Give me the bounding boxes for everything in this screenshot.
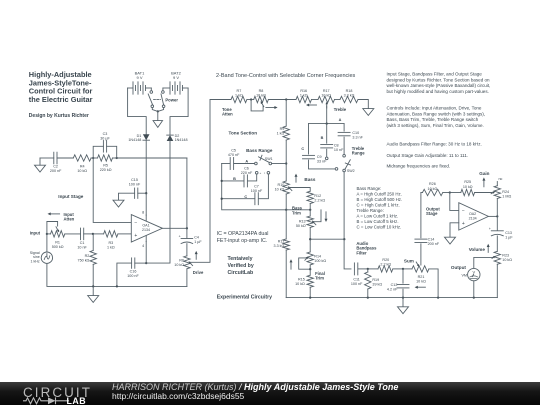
wire bbox=[170, 88, 188, 135]
svg-text:SW1: SW1 bbox=[265, 157, 273, 161]
label Output Stage bbox=[426, 206, 440, 216]
node bbox=[367, 268, 369, 270]
wire bbox=[496, 236, 498, 251]
svg-text:C4: C4 bbox=[194, 236, 199, 240]
svg-text:470 nF: 470 nF bbox=[228, 153, 240, 157]
text IC note bbox=[217, 231, 269, 244]
label Bass Trim bbox=[292, 206, 328, 222]
svg-text:Gain: Gain bbox=[479, 171, 489, 176]
svg-text:FET-input op-amp IC.: FET-input op-amp IC. bbox=[217, 238, 268, 244]
svg-text:i: i bbox=[265, 171, 266, 175]
svg-text:C14: C14 bbox=[428, 238, 435, 242]
svg-text:Volume: Volume bbox=[469, 247, 486, 252]
potentiometer R17 bbox=[306, 89, 335, 124]
wire bbox=[128, 88, 147, 134]
potentiometer R13 bbox=[296, 216, 316, 228]
title block bbox=[29, 70, 93, 104]
wire bbox=[247, 98, 254, 100]
capacitor C12 bbox=[387, 269, 409, 298]
svg-text:3.3 kΩ: 3.3 kΩ bbox=[274, 244, 285, 248]
text line bbox=[387, 153, 469, 158]
svg-text:1 kΩ: 1 kΩ bbox=[235, 94, 243, 98]
ground bbox=[398, 298, 409, 314]
svg-text:R5: R5 bbox=[103, 164, 108, 168]
label Bass bbox=[295, 174, 316, 183]
text line bbox=[387, 163, 451, 168]
wire bbox=[450, 223, 459, 237]
wire minus input bbox=[93, 158, 131, 222]
svg-text:A = High Cutoff 250 Hz.: A = High Cutoff 250 Hz. bbox=[357, 192, 402, 197]
svg-text:1N4148: 1N4148 bbox=[128, 138, 141, 142]
capacitor C1 bbox=[65, 228, 93, 249]
svg-text:10 kΩ: 10 kΩ bbox=[416, 280, 426, 284]
wire ground bus bbox=[47, 263, 187, 287]
svg-text:10 nF: 10 nF bbox=[77, 245, 87, 249]
label A bbox=[339, 118, 342, 122]
svg-text:B = High Cutoff 500 Hz.: B = High Cutoff 500 Hz. bbox=[357, 197, 403, 202]
svg-text:4: 4 bbox=[142, 244, 144, 248]
svg-text:Attenuation, Bass Range switch: Attenuation, Bass Range switch (with 3 s… bbox=[387, 111, 486, 116]
wire drive wiper bbox=[190, 100, 231, 263]
svg-text:Controls Include: Input Attenu: Controls Include: Input Attenuation, Dri… bbox=[387, 106, 482, 111]
resistor R18 bbox=[335, 89, 359, 103]
svg-text:C12: C12 bbox=[391, 283, 398, 287]
label Gain bbox=[479, 171, 489, 187]
svg-text:10 kΩ: 10 kΩ bbox=[428, 187, 438, 191]
capacitor C6 bbox=[222, 167, 257, 187]
label C bbox=[301, 147, 304, 151]
svg-text:R2: R2 bbox=[85, 254, 90, 258]
text line bbox=[387, 141, 482, 146]
svg-text:Treble Range:: Treble Range: bbox=[357, 208, 384, 213]
svg-text:the Electric Guitar: the Electric Guitar bbox=[29, 95, 93, 104]
svg-text:but highly modified and having: but highly modified and having custom pa… bbox=[387, 89, 489, 94]
svg-text:nc: nc bbox=[499, 177, 503, 181]
resistor R19 bbox=[365, 269, 383, 298]
svg-text:Output Stage Gain Adjustable:: Output Stage Gain Adjustable: 11 to 111. bbox=[387, 153, 469, 158]
svg-text:Drive: Drive bbox=[193, 270, 204, 275]
wire V- rail bbox=[147, 141, 170, 263]
voltmeter VM bbox=[461, 268, 480, 280]
capacitor C9 bbox=[303, 124, 338, 171]
svg-text:30 µF: 30 µF bbox=[100, 137, 110, 141]
resistor R2 bbox=[78, 234, 97, 287]
label Input Atten bbox=[48, 212, 75, 222]
svg-text:C11: C11 bbox=[353, 277, 360, 281]
svg-text:10 kΩ: 10 kΩ bbox=[174, 263, 184, 267]
svg-text:500 kΩ: 500 kΩ bbox=[52, 245, 64, 249]
label Tone Section bbox=[229, 130, 258, 135]
svg-text:10 kΩ: 10 kΩ bbox=[295, 282, 305, 286]
svg-text:R11: R11 bbox=[278, 240, 285, 244]
svg-text:−: − bbox=[134, 220, 137, 226]
svg-text:R7: R7 bbox=[237, 89, 242, 93]
svg-text:Range: Range bbox=[352, 151, 365, 156]
svg-text:C15: C15 bbox=[131, 178, 138, 182]
svg-text:100 nF: 100 nF bbox=[351, 282, 363, 286]
svg-text:100 nF: 100 nF bbox=[129, 183, 141, 187]
svg-text:C5: C5 bbox=[231, 149, 236, 153]
wire bass bus bbox=[221, 164, 312, 211]
wire R13 wiper bbox=[313, 210, 321, 222]
wire bass wiper bbox=[290, 188, 311, 192]
svg-text:Design by Kurtus Richter: Design by Kurtus Richter bbox=[29, 113, 89, 119]
svg-text:R20: R20 bbox=[382, 258, 389, 262]
resistor R7 bbox=[231, 89, 247, 103]
wire bbox=[310, 238, 345, 240]
svg-text:R23: R23 bbox=[502, 254, 509, 258]
CircuitLab logo bbox=[22, 383, 102, 405]
wire bbox=[475, 192, 492, 194]
svg-text:Midrange frequencies are fixed: Midrange frequencies are fixed. bbox=[387, 163, 451, 168]
svg-text:Sum: Sum bbox=[404, 258, 414, 263]
svg-text:1N4148: 1N4148 bbox=[175, 138, 188, 142]
wire treble top bbox=[309, 122, 345, 124]
svg-text:10 kΩ: 10 kΩ bbox=[77, 169, 87, 173]
svg-text:R8: R8 bbox=[259, 89, 264, 93]
resistor R16 bbox=[296, 89, 312, 103]
svg-text:Audio Bandpass Filter Range: 3: Audio Bandpass Filter Range: 30 Hz to 18… bbox=[387, 141, 482, 146]
wire bbox=[268, 98, 296, 100]
ground bbox=[113, 200, 124, 207]
svg-text:A: A bbox=[245, 159, 248, 163]
ground bbox=[88, 286, 99, 302]
svg-text:+: + bbox=[134, 233, 137, 239]
svg-text:SW2: SW2 bbox=[347, 169, 355, 173]
battery BAT2 bbox=[163, 71, 188, 95]
svg-text:OA1: OA1 bbox=[142, 224, 149, 228]
wire ground bus right bbox=[286, 296, 497, 298]
svg-text:100 kΩ: 100 kΩ bbox=[314, 259, 326, 263]
label Sum bbox=[404, 258, 414, 263]
resistor R5 bbox=[91, 155, 117, 172]
potentiometer R14 bbox=[305, 252, 326, 265]
svg-text:10 kΩ: 10 kΩ bbox=[256, 94, 266, 98]
ground bbox=[445, 237, 456, 244]
resistor R3 bbox=[93, 231, 118, 250]
svg-text:A = Low Cutoff 1 kHz.: A = Low Cutoff 1 kHz. bbox=[357, 214, 399, 219]
svg-text:1 kΩ: 1 kΩ bbox=[277, 131, 285, 135]
battery BAT1 bbox=[128, 71, 152, 95]
svg-text:R9: R9 bbox=[280, 127, 285, 131]
wire OA2 output bbox=[488, 215, 498, 217]
capacitor C13 bbox=[489, 227, 514, 240]
switch SW power bbox=[148, 88, 178, 108]
svg-text:C16: C16 bbox=[130, 270, 137, 274]
svg-text:Tone Section: Tone Section bbox=[229, 130, 258, 135]
svg-text:Input: Input bbox=[30, 231, 41, 236]
diode D2 bbox=[167, 134, 188, 142]
svg-text:Filter: Filter bbox=[356, 250, 367, 255]
label Input bbox=[30, 231, 41, 236]
wire bbox=[358, 100, 368, 109]
resistor R12 bbox=[307, 191, 325, 216]
svg-text:3.3 nF: 3.3 nF bbox=[352, 136, 363, 140]
capacitor C10 bbox=[338, 124, 364, 157]
svg-text:CircuitLab: CircuitLab bbox=[228, 270, 254, 276]
svg-text:C10: C10 bbox=[352, 131, 359, 135]
section title bbox=[216, 73, 356, 79]
svg-text:OA2: OA2 bbox=[469, 212, 476, 216]
svg-text:Atten: Atten bbox=[64, 217, 75, 222]
svg-text:+: + bbox=[462, 221, 465, 227]
svg-text:C = High Cutoff 1 kHz.: C = High Cutoff 1 kHz. bbox=[357, 203, 400, 208]
svg-text:R4: R4 bbox=[80, 165, 85, 169]
svg-text:R25: R25 bbox=[464, 180, 471, 184]
svg-text:C7: C7 bbox=[254, 184, 259, 188]
svg-text:R17: R17 bbox=[323, 89, 330, 93]
svg-text:C1: C1 bbox=[80, 241, 85, 245]
wire pin4 bbox=[145, 242, 147, 265]
wire SW2 common bbox=[344, 172, 351, 269]
op-amp OA2 bbox=[459, 203, 489, 230]
svg-text:2134: 2134 bbox=[142, 228, 150, 232]
source SIG1 bbox=[30, 251, 53, 264]
wire bbox=[496, 199, 498, 231]
svg-text:10 kΩ: 10 kΩ bbox=[502, 258, 512, 262]
resistor R15 bbox=[295, 265, 313, 298]
switch SW2 bbox=[343, 160, 355, 173]
svg-text:R26: R26 bbox=[429, 182, 436, 186]
svg-text:R13: R13 bbox=[299, 220, 306, 224]
svg-text:Atten: Atten bbox=[222, 112, 233, 117]
capacitor C5 bbox=[222, 149, 255, 170]
wire bbox=[496, 264, 498, 297]
wire feedback bbox=[186, 158, 188, 228]
potentiometer R24 bbox=[491, 177, 511, 199]
svg-text:2.2 kΩ: 2.2 kΩ bbox=[314, 198, 325, 202]
svg-text:8: 8 bbox=[142, 210, 144, 214]
svg-text:200 nF: 200 nF bbox=[428, 242, 440, 246]
label B bbox=[233, 177, 236, 181]
switch SW1 bbox=[255, 155, 273, 175]
wire bbox=[272, 163, 287, 165]
resistor R9 bbox=[277, 100, 290, 182]
svg-text:39 kΩ: 39 kΩ bbox=[372, 282, 382, 286]
svg-text:designed by Kurtus Richter. To: designed by Kurtus Richter. Tone Section… bbox=[387, 77, 491, 82]
resistor R11 bbox=[274, 210, 290, 298]
svg-text:1 µF: 1 µF bbox=[505, 235, 513, 239]
svg-text:100 nF: 100 nF bbox=[251, 189, 263, 193]
svg-text:V: V bbox=[472, 269, 475, 274]
text experimental bbox=[217, 295, 272, 301]
svg-text:R16: R16 bbox=[300, 89, 307, 93]
svg-text:IC = OPA2134PA dual: IC = OPA2134PA dual bbox=[217, 231, 269, 237]
potentiometer R23 bbox=[492, 251, 512, 264]
svg-text:Trim: Trim bbox=[292, 211, 301, 216]
svg-text:Input Stage: Input Stage bbox=[58, 194, 83, 199]
svg-text:R18: R18 bbox=[346, 89, 353, 93]
label Drive bbox=[193, 251, 204, 275]
svg-text:R6: R6 bbox=[179, 259, 184, 263]
svg-text:Bass Range: Bass Range bbox=[246, 148, 273, 153]
capacitor C16 bbox=[117, 258, 147, 287]
svg-text:10 kΩ: 10 kΩ bbox=[463, 185, 473, 189]
label Input Stage bbox=[58, 194, 83, 199]
label Final Trim bbox=[315, 271, 325, 281]
label Audio Bandpass Filter bbox=[356, 241, 377, 255]
svg-text:C6: C6 bbox=[244, 167, 249, 171]
capacitor C3 bbox=[93, 132, 117, 158]
capacitor C14 bbox=[415, 193, 440, 247]
svg-text:220 kΩ: 220 kΩ bbox=[100, 168, 112, 172]
svg-text:C: C bbox=[244, 195, 247, 199]
svg-text:9 V: 9 V bbox=[173, 75, 179, 80]
svg-text:+: + bbox=[260, 171, 262, 175]
resistor R20 bbox=[368, 258, 403, 272]
capacitor C2 bbox=[40, 152, 73, 173]
svg-text:10 kΩ: 10 kΩ bbox=[321, 94, 331, 98]
svg-text:Tentaively: Tentaively bbox=[228, 256, 253, 262]
svg-text:2.2 kΩ: 2.2 kΩ bbox=[380, 262, 391, 266]
svg-text:R12: R12 bbox=[314, 194, 321, 198]
ground bbox=[35, 158, 46, 172]
svg-text:33 nF: 33 nF bbox=[317, 160, 327, 164]
svg-text:VM: VM bbox=[461, 274, 467, 278]
wire bbox=[152, 108, 163, 121]
label Output bbox=[451, 265, 467, 270]
svg-text:1 kΩ: 1 kΩ bbox=[107, 245, 115, 249]
svg-text:1 kΩ: 1 kΩ bbox=[300, 94, 308, 98]
capacitor C4 bbox=[179, 228, 203, 256]
ground bbox=[153, 121, 163, 128]
node bbox=[449, 191, 451, 193]
svg-text:C8: C8 bbox=[334, 144, 339, 148]
svg-text:Output: Output bbox=[451, 265, 467, 270]
capacitor C7 bbox=[222, 174, 269, 205]
text paragraph 1 bbox=[387, 72, 491, 94]
potentiometer R10 bbox=[275, 181, 292, 210]
wire bbox=[46, 233, 48, 252]
svg-text:C = Low Cutoff 10 kHz.: C = Low Cutoff 10 kHz. bbox=[357, 225, 402, 230]
node bbox=[92, 233, 94, 235]
svg-text:Input Stage, Bandpass Filter,: Input Stage, Bandpass Filter, and Output… bbox=[387, 72, 483, 77]
label Tone Atten bbox=[222, 107, 233, 117]
wire OA1 output bbox=[162, 227, 188, 229]
op-amp OA1 bbox=[131, 210, 162, 248]
svg-text:220 nF: 220 nF bbox=[241, 171, 253, 175]
svg-text:Bass Range:: Bass Range: bbox=[357, 186, 382, 191]
svg-text:1 kHz: 1 kHz bbox=[31, 260, 40, 264]
svg-text:9 V: 9 V bbox=[136, 75, 142, 80]
svg-text:(with 3 settings), Sum, Final: (with 3 settings), Sum, Final Trim, Gain… bbox=[387, 123, 484, 128]
svg-text:50 kΩ: 50 kΩ bbox=[296, 224, 306, 228]
svg-text:Treble: Treble bbox=[334, 107, 347, 112]
svg-text:R1: R1 bbox=[55, 240, 60, 244]
svg-text:R24: R24 bbox=[502, 190, 509, 194]
svg-text:3.3 kΩ: 3.3 kΩ bbox=[344, 94, 355, 98]
svg-text:+: + bbox=[179, 235, 181, 239]
capacitor C8 bbox=[321, 124, 344, 160]
svg-text:C2: C2 bbox=[53, 165, 58, 169]
text range list bbox=[357, 186, 403, 230]
wire R14 wiper bbox=[290, 258, 312, 270]
svg-text:Power: Power bbox=[165, 97, 178, 102]
svg-text:Trim: Trim bbox=[315, 276, 324, 281]
svg-text:R15: R15 bbox=[298, 277, 305, 281]
resistor R25 bbox=[450, 180, 475, 196]
svg-text:R21: R21 bbox=[418, 275, 425, 279]
svg-text:Stage: Stage bbox=[426, 211, 438, 216]
resistor R26 bbox=[423, 182, 450, 196]
svg-text:10 kΩ: 10 kΩ bbox=[275, 187, 285, 191]
svg-text:B: B bbox=[321, 136, 324, 140]
resistor R4 bbox=[73, 155, 91, 173]
potentiometer R8 bbox=[251, 89, 278, 111]
svg-text:Signal: Signal bbox=[30, 251, 40, 255]
label Treble Range bbox=[352, 146, 365, 156]
wire bbox=[312, 99, 319, 101]
svg-text:R19: R19 bbox=[372, 278, 379, 282]
ground bbox=[363, 109, 374, 116]
svg-text:sine: sine bbox=[33, 255, 40, 259]
label Treble bbox=[334, 107, 347, 112]
svg-text:R14: R14 bbox=[314, 254, 321, 258]
svg-text:R10: R10 bbox=[278, 183, 285, 187]
svg-text:C3: C3 bbox=[103, 132, 108, 136]
potentiometer R1 bbox=[47, 222, 65, 249]
wire bbox=[117, 157, 187, 159]
wire bbox=[473, 281, 475, 298]
label Bass Range bbox=[246, 148, 273, 153]
svg-text:1 MΩ: 1 MΩ bbox=[502, 195, 511, 199]
wire bbox=[309, 228, 311, 252]
svg-text:Verified by: Verified by bbox=[228, 263, 254, 269]
svg-text:−: − bbox=[462, 208, 465, 214]
label Volume bbox=[469, 244, 490, 253]
diode D1 bbox=[128, 134, 149, 142]
svg-text:750 kΩ: 750 kΩ bbox=[78, 258, 90, 262]
node bbox=[402, 268, 404, 270]
node bbox=[92, 157, 94, 159]
svg-text:A: A bbox=[339, 118, 342, 122]
node bbox=[116, 157, 118, 159]
label C bbox=[244, 195, 247, 199]
svg-text:C9: C9 bbox=[317, 155, 322, 159]
wire bbox=[450, 193, 459, 211]
svg-text:Bass: Bass bbox=[304, 177, 315, 182]
svg-text:1 µF: 1 µF bbox=[194, 240, 202, 244]
label A bbox=[245, 159, 248, 163]
svg-text:well-known James-style (Passiv: well-known James-style (Passive Baxandal… bbox=[387, 83, 491, 88]
svg-text:B = Low Cutoff 5 kHz.: B = Low Cutoff 5 kHz. bbox=[357, 219, 399, 224]
svg-text:+: + bbox=[489, 227, 491, 231]
label B bbox=[321, 136, 324, 140]
wire bbox=[118, 233, 131, 235]
text paragraph 2 bbox=[387, 106, 486, 128]
wire V+ rail bbox=[145, 140, 147, 215]
capacitor C15 bbox=[119, 178, 147, 200]
svg-text:200 nF: 200 nF bbox=[50, 169, 62, 173]
potentiometer R6 bbox=[174, 256, 192, 287]
svg-text:2-Band Tone-Control with Selec: 2-Band Tone-Control with Selectable Corn… bbox=[216, 73, 356, 79]
capacitor C11 bbox=[351, 263, 368, 286]
potentiometer R21 bbox=[403, 244, 429, 289]
svg-text:LAB: LAB bbox=[67, 396, 87, 405]
svg-text:R3: R3 bbox=[108, 241, 113, 245]
svg-text:100 nF: 100 nF bbox=[127, 274, 139, 278]
svg-text:Bass, Bass Trim, Treble, Trebl: Bass, Bass Trim, Treble, Treble Range sw… bbox=[387, 117, 479, 122]
svg-text:Experimental Circuitry: Experimental Circuitry bbox=[217, 295, 272, 301]
svg-text:C: C bbox=[301, 147, 304, 151]
wire bbox=[429, 269, 438, 298]
svg-text:10 nF: 10 nF bbox=[334, 148, 344, 152]
subtitle bbox=[29, 113, 89, 119]
text verified bbox=[228, 256, 254, 276]
svg-text:4.2 nF: 4.2 nF bbox=[387, 288, 398, 292]
wire volume wiper bbox=[474, 257, 494, 268]
svg-text:B: B bbox=[233, 177, 236, 181]
